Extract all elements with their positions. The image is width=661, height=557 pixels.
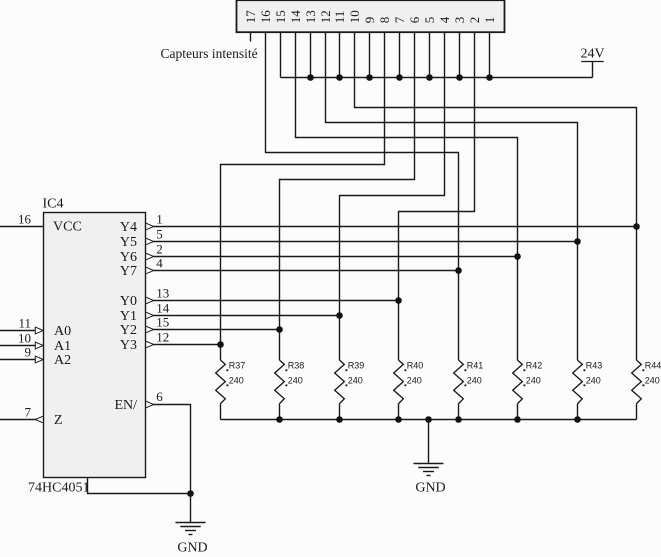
junction pin 11 / 24V rail — [336, 74, 343, 81]
svg-text:16: 16 — [18, 211, 32, 226]
wire net Y5 — [153, 241, 577, 243]
svg-text:Y1: Y1 — [120, 309, 137, 324]
IC4 pin A0 arrow — [35, 327, 43, 334]
IC4 pin Y5 arrow — [146, 238, 154, 245]
svg-text:14: 14 — [156, 300, 170, 315]
wire 24V rail — [281, 77, 593, 79]
label R42 designator — [523, 369, 525, 371]
svg-text:240: 240 — [288, 376, 303, 386]
svg-text:5: 5 — [422, 17, 437, 24]
wire pin 7 to 24V rail — [399, 32, 401, 77]
svg-text:13: 13 — [303, 10, 318, 23]
IC4 pin Z arrow — [35, 416, 43, 423]
svg-text:R40: R40 — [407, 360, 424, 370]
IC4 pin Y0 arrow — [146, 297, 154, 304]
wire pin 6 across to R38/Y2 — [279, 179, 415, 181]
node Y5 junction — [574, 238, 581, 245]
wire pin 14 across to R42/Y6 — [295, 137, 518, 139]
IC4 pin A1 arrow — [35, 342, 43, 349]
label R40 value 240 — [404, 384, 406, 386]
svg-text:Y3: Y3 — [120, 338, 137, 353]
wire pin 10 across to R44/Y4 — [354, 107, 637, 109]
resistor R39 body — [335, 360, 345, 404]
node Y0 junction — [395, 297, 402, 304]
wire R37/Y3 column — [220, 165, 222, 361]
svg-text:A0: A0 — [54, 324, 71, 339]
svg-text:Y2: Y2 — [120, 323, 137, 338]
wire pin 4 across to R39/Y1 — [339, 195, 445, 197]
svg-text:Y7: Y7 — [120, 264, 137, 279]
resistor R44 bottom lead — [636, 404, 638, 420]
wire ground rail to GND symbol — [428, 420, 430, 464]
svg-text:R41: R41 — [467, 360, 484, 370]
resistor R43 body — [573, 360, 583, 404]
ground symbol (resistor rail) — [414, 463, 444, 465]
junction pin 3 / 24V rail — [456, 74, 463, 81]
ground symbol (IC4 / EN net) — [176, 522, 206, 524]
label R41 designator — [464, 369, 466, 371]
resistor R42 body — [513, 360, 523, 404]
svg-text:6: 6 — [156, 389, 163, 404]
svg-text:R42: R42 — [526, 360, 543, 370]
label R43 designator — [583, 369, 585, 371]
wire R41/Y7 column — [458, 153, 460, 361]
svg-text:240: 240 — [645, 376, 660, 386]
svg-text:IC4: IC4 — [43, 197, 64, 212]
wire R38/Y2 column — [279, 180, 281, 361]
wire pin 11 to 24V rail — [339, 32, 341, 77]
svg-text:R38: R38 — [288, 360, 305, 370]
svg-text:A2: A2 — [54, 353, 71, 368]
svg-text:10: 10 — [18, 330, 31, 345]
label R42 value 240 — [523, 384, 525, 386]
svg-text:A1: A1 — [54, 339, 71, 354]
wire R40/Y0 column — [398, 212, 400, 361]
svg-text:6: 6 — [407, 16, 422, 23]
IC4 pin A2 arrow — [35, 356, 43, 363]
junction R42 / ground rail — [514, 416, 521, 423]
resistor R40 body — [394, 360, 404, 404]
label R44 designator — [642, 369, 644, 371]
wire pin 14 down — [295, 32, 297, 137]
svg-text:VCC: VCC — [53, 220, 82, 235]
wire pin 3 to 24V rail — [459, 32, 461, 77]
svg-text:1: 1 — [482, 17, 497, 24]
wire pin 16 down — [265, 32, 267, 152]
wire IC ground across — [87, 493, 191, 495]
IC4 pin Y6 arrow — [146, 253, 154, 260]
svg-text:4: 4 — [437, 16, 452, 23]
resistor R40 bottom lead — [398, 404, 400, 420]
svg-text:17: 17 — [243, 10, 258, 24]
IC4 pin Y3 arrow — [146, 341, 154, 348]
IC4 pin VCC wire (pin 16) — [0, 226, 44, 228]
resistor R43 bottom lead — [577, 404, 579, 420]
wire pin 8 down — [384, 32, 386, 164]
wire ground rail — [221, 419, 637, 421]
wire pin 6 down — [414, 32, 416, 179]
junction pin 13 / 24V rail — [307, 74, 314, 81]
svg-text:Y0: Y0 — [120, 294, 137, 309]
svg-text:12: 12 — [318, 10, 333, 23]
label R39 value 240 — [345, 384, 347, 386]
label R39 designator — [345, 369, 347, 371]
svg-text:240: 240 — [467, 376, 482, 386]
svg-text:240: 240 — [586, 376, 601, 386]
svg-text:Y5: Y5 — [120, 235, 137, 250]
svg-text:Capteurs intensité: Capteurs intensité — [161, 46, 258, 61]
IC4 ground pin wire down — [87, 478, 89, 494]
wire pin 16 across to R41/Y7 — [265, 152, 459, 154]
wire EN/ down — [190, 405, 192, 494]
supply 24V bar — [581, 61, 603, 63]
wire pin 1 to 24V rail — [489, 32, 491, 77]
wire pin 12 across to R43/Y5 — [325, 122, 578, 124]
IC4 pin A1 wire — [0, 345, 36, 347]
wire down to GND symbol — [190, 494, 192, 523]
label R44 value 240 — [642, 384, 644, 386]
wire R42/Y6 column — [517, 138, 519, 361]
wire net Y7 — [153, 270, 458, 272]
svg-text:4: 4 — [156, 255, 163, 270]
wire 24V stem — [592, 62, 594, 78]
svg-text:R44: R44 — [645, 360, 661, 370]
wire pin 5 to 24V rail — [429, 32, 431, 77]
label R38 value 240 — [285, 384, 287, 386]
wire pin 15 to 24V rail — [280, 32, 282, 77]
svg-text:10: 10 — [347, 10, 362, 23]
svg-text:GND: GND — [177, 541, 207, 556]
svg-text:EN/: EN/ — [114, 398, 137, 413]
wire net Y4 — [153, 226, 636, 228]
svg-text:14: 14 — [288, 10, 303, 24]
label R38 designator — [285, 369, 287, 371]
node Y2 junction — [276, 326, 283, 333]
IC U1: multiplexer IC4 74HC4051 body — [44, 213, 146, 478]
svg-text:240: 240 — [526, 376, 541, 386]
svg-text:11: 11 — [18, 315, 31, 330]
svg-text:Z: Z — [54, 413, 63, 428]
wire pin 8 across to R37/Y3 — [220, 164, 385, 166]
node Y7 junction — [455, 267, 462, 274]
svg-text:5: 5 — [156, 226, 163, 241]
svg-text:Y4: Y4 — [120, 220, 137, 235]
junction pin 7 / 24V rail — [396, 74, 403, 81]
junction pin 1 / 24V rail — [486, 74, 493, 81]
svg-text:1: 1 — [156, 211, 163, 226]
junction pin 9 / 24V rail — [366, 74, 373, 81]
label R43 value 240 — [583, 384, 585, 386]
junction R40 / ground rail — [395, 416, 402, 423]
wire net Y0 — [153, 300, 398, 302]
IC4 pin Y1 arrow — [146, 312, 154, 319]
junction pin 5 / 24V rail — [426, 74, 433, 81]
connector Capteurs intensité — [237, 0, 505, 32]
svg-text:R39: R39 — [348, 360, 365, 370]
wire pin 10 down — [354, 32, 356, 107]
wire net Y1 — [153, 315, 339, 317]
svg-text:7: 7 — [25, 404, 32, 419]
wire net Y3 — [153, 344, 220, 346]
resistor R42 bottom lead — [517, 404, 519, 420]
label R41 value 240 — [464, 384, 466, 386]
wire R44/Y4 column — [636, 108, 638, 361]
svg-text:15: 15 — [156, 314, 169, 329]
resistor R44 body — [632, 360, 642, 404]
resistor R39 bottom lead — [339, 404, 341, 420]
node Y4 junction — [633, 223, 640, 230]
svg-text:2: 2 — [467, 17, 482, 24]
wire net Y2 — [153, 329, 279, 331]
node Y1 junction — [336, 312, 343, 319]
wire R39/Y1 column — [339, 196, 341, 361]
wire pin 12 down — [325, 32, 327, 122]
node Y3 junction — [217, 341, 224, 348]
resistor R37 body — [216, 360, 226, 404]
svg-text:240: 240 — [229, 376, 244, 386]
svg-text:8: 8 — [377, 17, 392, 24]
svg-text:3: 3 — [452, 17, 467, 24]
IC4 pin EN/ arrow — [146, 401, 154, 408]
svg-text:240: 240 — [348, 376, 363, 386]
svg-text:2: 2 — [156, 241, 163, 256]
svg-text:12: 12 — [156, 329, 169, 344]
wire pin 17 stub — [250, 32, 252, 41]
wire EN/ across — [153, 404, 191, 406]
junction EN / IC ground node — [187, 490, 194, 497]
svg-text:9: 9 — [25, 344, 32, 359]
resistor R37 bottom lead — [220, 404, 222, 420]
node Y6 junction — [514, 253, 521, 260]
resistor R41 body — [454, 360, 464, 404]
IC4 pin A0 wire — [0, 330, 36, 332]
wire pin 9 to 24V rail — [369, 32, 371, 77]
svg-text:11: 11 — [332, 11, 347, 24]
svg-text:9: 9 — [362, 17, 377, 24]
junction R43 / ground rail — [574, 416, 581, 423]
IC4 pin Y7 arrow — [146, 267, 154, 274]
label R37 value 240 — [226, 384, 228, 386]
svg-text:R43: R43 — [586, 360, 603, 370]
resistor R38 body — [275, 360, 285, 404]
svg-text:16: 16 — [258, 10, 273, 24]
svg-text:15: 15 — [273, 10, 288, 23]
IC4 pin Y4 arrow — [146, 223, 154, 230]
IC4 pin Z wire — [0, 419, 36, 421]
IC4 pin A2 wire — [0, 359, 36, 361]
junction R38 / ground rail — [276, 416, 283, 423]
wire R43/Y5 column — [577, 123, 579, 361]
svg-text:GND: GND — [415, 480, 445, 495]
label R37 designator — [226, 369, 228, 371]
wire pin 13 to 24V rail — [310, 32, 312, 77]
wire pin 4 down — [444, 32, 446, 195]
wire pin 2 across to R40/Y0 — [398, 211, 475, 213]
svg-text:7: 7 — [392, 16, 407, 23]
junction R41 / ground rail — [455, 416, 462, 423]
svg-text:74HC4051: 74HC4051 — [28, 481, 89, 496]
label R40 designator — [404, 369, 406, 371]
wire net Y6 — [153, 256, 517, 258]
svg-text:240: 240 — [407, 376, 422, 386]
resistor R41 bottom lead — [458, 404, 460, 420]
junction ground rail / GND stem — [425, 416, 432, 423]
svg-text:24V: 24V — [580, 47, 604, 62]
junction R39 / ground rail — [336, 416, 343, 423]
svg-text:R37: R37 — [229, 360, 246, 370]
wire pin 2 down — [474, 32, 476, 211]
svg-text:13: 13 — [156, 285, 169, 300]
resistor R38 bottom lead — [279, 404, 281, 420]
svg-text:Y6: Y6 — [120, 250, 137, 265]
IC4 pin Y2 arrow — [146, 326, 154, 333]
